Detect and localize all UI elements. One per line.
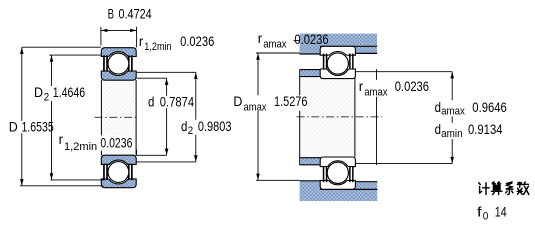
svg-text:0.9803: 0.9803 xyxy=(198,119,232,134)
svg-text:r: r xyxy=(359,79,364,94)
svg-text:d: d xyxy=(148,95,154,110)
svg-text:0.7874: 0.7874 xyxy=(160,95,195,110)
inner ring upper (right view) xyxy=(320,69,355,79)
raceway groove upper (left view) xyxy=(107,52,131,76)
dimension d line xyxy=(166,78,168,155)
raceway groove lower (right view) xyxy=(326,161,350,185)
svg-text:0.9134: 0.9134 xyxy=(468,122,503,137)
dimension D leader top xyxy=(22,46,101,48)
da leader top xyxy=(355,71,452,73)
svg-text:0.4724: 0.4724 xyxy=(119,7,152,22)
bore column hatch (left view) xyxy=(102,80,136,155)
dimension B line xyxy=(101,29,137,31)
label damax 0.9646 xyxy=(433,100,466,116)
dimension B arrow right xyxy=(130,29,137,32)
svg-text:1,2min: 1,2min xyxy=(64,141,97,153)
centerline (right view axis) xyxy=(297,116,383,118)
housing upper right shoulder xyxy=(356,47,377,53)
bearing lower section (right view) xyxy=(320,157,355,189)
svg-text:amax: amax xyxy=(441,106,465,118)
housing upper right shoulder bottom edge xyxy=(356,52,377,54)
shaft upper shoulder xyxy=(300,70,320,76)
housing lower band (right view) xyxy=(300,190,378,201)
dimension D2 leader top xyxy=(49,54,101,56)
dimension d2 leader bottom xyxy=(137,161,196,163)
shaft lower shoulder xyxy=(300,158,320,165)
housing lower right shoulder top edge xyxy=(356,181,377,183)
dimension B extension line right xyxy=(136,27,138,48)
svg-text:amin: amin xyxy=(441,128,463,140)
housing upper bore line xyxy=(320,45,377,47)
ball upper (right view) xyxy=(327,53,348,74)
svg-text:amax: amax xyxy=(244,101,268,113)
outer ring upper (right view) xyxy=(320,46,355,55)
dimension D line xyxy=(21,47,23,186)
svg-text:amax: amax xyxy=(263,38,287,50)
bearing upper section (left view) xyxy=(101,48,136,80)
bearing lower section (left view) xyxy=(101,155,136,188)
char suan xyxy=(491,182,502,195)
svg-text:amax: amax xyxy=(364,86,388,98)
svg-text:d: d xyxy=(435,100,441,115)
shaft left face line xyxy=(299,70,301,166)
housing lower left shoulder top edge xyxy=(300,180,321,182)
dimension D2 line xyxy=(51,55,53,180)
shaft right end face xyxy=(354,72,356,157)
svg-text:r: r xyxy=(139,34,144,49)
label d2 0.9803 xyxy=(180,120,233,135)
svg-text:0.0236: 0.0236 xyxy=(180,34,214,49)
bore column right edge xyxy=(135,80,137,155)
ball lower (right view) xyxy=(327,162,348,183)
dimension d arrow up xyxy=(165,78,169,85)
svg-text:D: D xyxy=(233,94,242,109)
label damin 0.9134 xyxy=(433,123,464,139)
outer ring lower (left view) xyxy=(101,179,136,188)
svg-text:14: 14 xyxy=(495,204,507,219)
dimension d2 arrow down xyxy=(194,155,198,162)
ball lower (left view) xyxy=(108,162,129,183)
inner ring upper (left view) xyxy=(101,71,136,80)
seals lower (right view) xyxy=(323,166,354,182)
r amax top leader xyxy=(294,40,300,42)
dimension d leader bottom xyxy=(137,154,167,156)
dimension da arrow down xyxy=(450,157,454,164)
centerline (left view axis) xyxy=(95,116,139,118)
svg-text:0: 0 xyxy=(483,210,489,222)
dimension d arrow down xyxy=(165,149,169,156)
dimension da arrow up xyxy=(450,72,454,79)
inner ring lower (left view) xyxy=(101,155,136,164)
housing lower left shoulder xyxy=(300,181,321,201)
shaft lower shoulder top edge xyxy=(300,157,321,159)
svg-text:1.4646: 1.4646 xyxy=(53,85,86,100)
svg-text:1.5276: 1.5276 xyxy=(274,94,308,109)
svg-text:D: D xyxy=(34,85,43,100)
raceway groove lower (left view) xyxy=(107,160,131,184)
dimension D arrow up xyxy=(20,47,24,54)
label d 0.7874 xyxy=(147,96,196,108)
housing lower bore line xyxy=(320,188,377,190)
dimension Damax leader top xyxy=(256,52,300,54)
svg-text:D: D xyxy=(9,119,18,134)
r amax right extension line xyxy=(376,69,378,165)
svg-text:f: f xyxy=(477,204,482,219)
svg-text:0.0236: 0.0236 xyxy=(100,136,132,151)
dimension d2 line xyxy=(195,72,197,162)
svg-text:2: 2 xyxy=(44,91,49,103)
dimension B extension line left xyxy=(100,27,102,46)
label r amax 0.0236 (right) xyxy=(358,80,391,97)
seals lower (left view) xyxy=(103,164,133,180)
shaft lower shoulder bottom edge xyxy=(300,164,321,166)
svg-text:0.0236: 0.0236 xyxy=(395,79,429,94)
svg-text:1.6535: 1.6535 xyxy=(22,119,55,134)
dimension d2 arrow up xyxy=(194,73,198,80)
dimension D2 arrow down xyxy=(50,173,54,180)
svg-text:r: r xyxy=(59,132,64,147)
ball upper (left view) xyxy=(108,53,129,74)
label Damax 1.5276 xyxy=(232,95,309,111)
label D 1.6535 xyxy=(8,121,56,133)
housing lower right shoulder xyxy=(356,182,377,190)
r 1,2min bottom extension line xyxy=(136,150,138,156)
raceway groove upper (right view) xyxy=(326,52,350,76)
dimension D2 leader bottom xyxy=(51,179,105,181)
svg-text:d: d xyxy=(435,122,441,137)
label D2 1.4646 xyxy=(33,86,87,101)
seals upper (right view) xyxy=(323,54,354,70)
char xi xyxy=(506,182,513,195)
label r 1,2min 0.0236 (bottom) xyxy=(99,135,134,150)
outer ring lower (right view) xyxy=(320,180,355,189)
shaft hatch (right view) xyxy=(300,79,354,157)
outer ring upper (left view) xyxy=(101,48,136,57)
bore column left edge xyxy=(100,80,102,155)
shaft upper shoulder top edge xyxy=(300,69,321,71)
dimension D arrow down xyxy=(20,179,24,186)
dimension Damax leader bottom xyxy=(256,179,300,181)
label calculation factors (Chinese) xyxy=(479,182,529,195)
dimension d leader top xyxy=(137,77,167,79)
svg-text:d: d xyxy=(181,119,187,134)
svg-text:2: 2 xyxy=(188,125,193,137)
seals upper (left view) xyxy=(103,55,133,71)
shaft upper shoulder bottom edge xyxy=(300,76,321,78)
dimension Damax arrow down xyxy=(256,174,260,181)
svg-text:B: B xyxy=(108,7,114,22)
dimension D leader bottom xyxy=(20,185,103,187)
dimension d2 leader top xyxy=(137,71,196,73)
dimension Damax arrow up xyxy=(256,53,260,60)
dimension B arrow left xyxy=(101,29,108,32)
svg-text:0.9646: 0.9646 xyxy=(472,100,507,115)
svg-text:0.0236: 0.0236 xyxy=(294,32,328,47)
housing upper band (right view) xyxy=(300,34,378,46)
char shu xyxy=(517,182,529,195)
dimension D2 arrow up xyxy=(50,55,54,62)
bearing upper section (right view) xyxy=(320,46,355,78)
svg-text:1,2min: 1,2min xyxy=(144,41,171,53)
housing upper left shoulder xyxy=(300,34,321,54)
svg-text:r: r xyxy=(258,31,263,46)
da leader bottom xyxy=(355,163,452,165)
inner ring lower (right view) xyxy=(320,157,355,167)
char ji xyxy=(479,183,490,195)
housing upper left shoulder bottom edge xyxy=(300,53,321,55)
dimension Damax line xyxy=(257,53,259,180)
dimension da line xyxy=(451,72,453,164)
